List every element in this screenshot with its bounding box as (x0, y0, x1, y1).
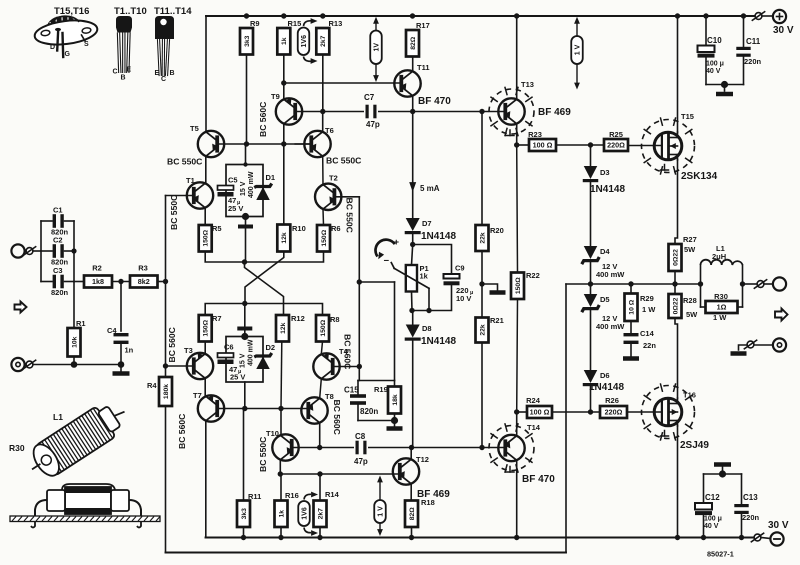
svg-text:C: C (113, 69, 118, 76)
svg-text:E: E (155, 70, 160, 77)
svg-text:180k: 180k (163, 384, 170, 399)
svg-text:C14: C14 (640, 329, 655, 338)
svg-text:25 V: 25 V (228, 204, 243, 213)
svg-text:T7: T7 (193, 391, 202, 400)
svg-text:D8: D8 (422, 324, 432, 333)
svg-text:BC 560C: BC 560C (177, 414, 187, 449)
svg-text:R9: R9 (250, 19, 260, 28)
svg-text:R25: R25 (609, 130, 623, 139)
svg-text:D4: D4 (600, 247, 610, 256)
svg-text:C12: C12 (705, 493, 720, 502)
svg-text:R19: R19 (374, 385, 388, 394)
svg-text:R12: R12 (291, 314, 305, 323)
svg-text:C10: C10 (707, 36, 722, 45)
svg-text:1Ω: 1Ω (717, 303, 727, 312)
svg-text:R24: R24 (526, 396, 541, 405)
svg-text:C5: C5 (228, 176, 238, 185)
svg-text:R6: R6 (331, 224, 341, 233)
svg-text:150Ω: 150Ω (321, 229, 328, 246)
svg-text:T15,T16: T15,T16 (54, 6, 89, 17)
svg-text:BF 470: BF 470 (418, 96, 451, 107)
svg-text:12k: 12k (280, 322, 287, 334)
svg-text:R13: R13 (329, 19, 343, 28)
svg-text:R5: R5 (212, 224, 222, 233)
svg-text:10 V: 10 V (456, 294, 471, 303)
svg-text:BC 560C: BC 560C (167, 327, 177, 362)
svg-text:85027-1: 85027-1 (707, 550, 734, 559)
svg-text:R17: R17 (416, 21, 430, 30)
svg-text:BC 550C: BC 550C (326, 156, 361, 166)
svg-text:1k8: 1k8 (92, 277, 104, 286)
svg-text:R3: R3 (138, 264, 148, 273)
svg-text:T13: T13 (521, 80, 534, 89)
svg-text:E: E (127, 67, 132, 74)
svg-text:G: G (65, 51, 71, 58)
svg-text:B: B (170, 70, 175, 77)
svg-text:1V6: 1V6 (301, 35, 308, 48)
svg-text:T11: T11 (417, 63, 430, 72)
svg-text:D3: D3 (600, 168, 610, 177)
svg-text:R29: R29 (640, 294, 654, 303)
svg-text:R30: R30 (9, 443, 25, 453)
svg-text:0Ω22: 0Ω22 (672, 249, 679, 266)
svg-text:R4: R4 (147, 381, 157, 390)
svg-text:BC 550C: BC 550C (258, 437, 268, 472)
svg-text:3k3: 3k3 (241, 508, 248, 520)
svg-text:T1: T1 (186, 176, 195, 185)
svg-text:30 V: 30 V (768, 520, 789, 531)
svg-text:1k: 1k (420, 272, 429, 281)
svg-text:1k: 1k (281, 37, 288, 45)
svg-text:150Ω: 150Ω (203, 229, 210, 246)
svg-text:82Ω: 82Ω (410, 36, 417, 50)
svg-text:C1: C1 (53, 206, 63, 215)
svg-text:T5: T5 (190, 124, 199, 133)
svg-text:BF 470: BF 470 (522, 474, 555, 485)
svg-text:1n: 1n (125, 346, 134, 355)
svg-text:R30: R30 (714, 292, 728, 301)
svg-text:L1: L1 (53, 412, 63, 422)
svg-text:BC 550C: BC 550C (169, 195, 179, 230)
svg-text:BC 550C: BC 550C (167, 157, 202, 167)
svg-text:820n: 820n (360, 407, 378, 416)
svg-text:D2: D2 (266, 343, 276, 352)
svg-text:C4: C4 (107, 326, 117, 335)
svg-text:BF 469: BF 469 (538, 107, 571, 118)
svg-text:1V: 1V (374, 43, 381, 52)
svg-text:100 Ω: 100 Ω (533, 141, 553, 150)
svg-text:C6: C6 (224, 343, 234, 352)
svg-text:220n: 220n (742, 513, 760, 522)
svg-text:R11: R11 (248, 492, 261, 501)
svg-text:150Ω: 150Ω (320, 319, 327, 336)
svg-text:T3: T3 (184, 346, 193, 355)
svg-text:10k: 10k (71, 336, 78, 348)
svg-text:C: C (161, 76, 166, 83)
svg-text:R15: R15 (288, 19, 302, 28)
svg-text:R28: R28 (683, 296, 697, 305)
svg-text:C13: C13 (743, 493, 758, 502)
svg-text:820n: 820n (51, 288, 69, 297)
svg-text:1 V: 1 V (575, 44, 582, 55)
svg-text:5W: 5W (686, 310, 698, 319)
svg-text:22k: 22k (479, 232, 486, 244)
svg-text:T9: T9 (271, 92, 280, 101)
svg-text:T12: T12 (416, 455, 429, 464)
svg-text:15 V: 15 V (240, 181, 247, 196)
svg-text:0Ω22: 0Ω22 (672, 297, 679, 314)
svg-text:3k3: 3k3 (244, 35, 251, 47)
svg-text:1N4148: 1N4148 (421, 231, 456, 242)
svg-text:40 V: 40 V (706, 68, 721, 75)
svg-text:220Ω: 220Ω (605, 408, 623, 417)
svg-text:T2: T2 (329, 174, 338, 183)
svg-text:C11: C11 (746, 37, 761, 46)
svg-text:400 mW: 400 mW (596, 322, 625, 331)
svg-text:15 V: 15 V (240, 353, 247, 368)
svg-text:1N4148: 1N4148 (590, 184, 625, 195)
svg-text:T15: T15 (681, 112, 694, 121)
svg-text:D: D (50, 44, 55, 51)
svg-text:1N4148: 1N4148 (589, 382, 624, 393)
svg-text:R20: R20 (490, 226, 504, 235)
svg-text:2k7: 2k7 (320, 35, 327, 47)
svg-text:C8: C8 (355, 432, 366, 441)
svg-text:R22: R22 (526, 271, 540, 280)
svg-text:BC 550C: BC 550C (345, 198, 355, 233)
svg-text:D7: D7 (422, 219, 432, 228)
svg-text:25 V: 25 V (230, 373, 245, 382)
svg-text:R26: R26 (605, 396, 619, 405)
svg-text:R1: R1 (76, 319, 86, 328)
svg-text:1 V: 1 V (378, 506, 385, 517)
svg-text:−: − (384, 256, 390, 267)
svg-text:B: B (121, 75, 126, 82)
svg-text:C3: C3 (53, 266, 63, 275)
svg-text:12k: 12k (281, 232, 288, 244)
svg-text:100 μ: 100 μ (704, 516, 722, 523)
svg-text:R10: R10 (292, 224, 306, 233)
svg-text:T14: T14 (527, 423, 541, 432)
svg-text:10 Ω: 10 Ω (628, 299, 635, 314)
svg-text:30 V: 30 V (773, 25, 794, 36)
svg-text:8k2: 8k2 (138, 277, 150, 286)
svg-text:BC 560C: BC 560C (332, 400, 342, 435)
svg-text:R8: R8 (330, 315, 340, 324)
svg-text:D5: D5 (600, 295, 610, 304)
svg-text:2k7: 2k7 (317, 508, 324, 520)
svg-text:D1: D1 (266, 173, 276, 182)
svg-text:S: S (84, 41, 89, 48)
svg-text:150Ω: 150Ω (515, 277, 522, 294)
svg-text:100 Ω: 100 Ω (530, 408, 550, 417)
svg-text:BC 560C: BC 560C (343, 334, 353, 369)
svg-text:R23: R23 (528, 130, 542, 139)
svg-text:220Ω: 220Ω (607, 141, 625, 150)
svg-text:5W: 5W (684, 245, 696, 254)
svg-text:5 mA: 5 mA (420, 184, 440, 193)
svg-text:D6: D6 (600, 371, 610, 380)
svg-text:47p: 47p (366, 120, 380, 129)
svg-text:BC 560C: BC 560C (258, 102, 268, 137)
svg-text:400 mW: 400 mW (248, 171, 255, 198)
svg-text:R2: R2 (92, 264, 102, 273)
svg-text:T11..T14: T11..T14 (154, 6, 192, 17)
svg-text:R14: R14 (325, 490, 340, 499)
svg-text:1 W: 1 W (642, 305, 656, 314)
svg-text:400 mW: 400 mW (596, 270, 625, 279)
svg-text:40 V: 40 V (704, 523, 719, 530)
svg-text:T1..T10: T1..T10 (114, 6, 147, 17)
svg-text:+: + (394, 237, 400, 248)
svg-text:2μH: 2μH (712, 252, 726, 261)
svg-text:C7: C7 (364, 93, 375, 102)
svg-text:22k: 22k (479, 324, 486, 336)
svg-text:1 W: 1 W (713, 313, 727, 322)
svg-text:400 mW: 400 mW (248, 339, 255, 366)
svg-text:1V6: 1V6 (302, 507, 309, 520)
svg-text:82Ω: 82Ω (409, 507, 416, 521)
svg-text:2SJ49: 2SJ49 (680, 440, 709, 451)
svg-text:2SK134: 2SK134 (681, 171, 718, 182)
svg-text:22n: 22n (643, 341, 656, 350)
svg-text:R7: R7 (212, 314, 222, 323)
svg-text:T6: T6 (325, 126, 334, 135)
svg-text:R16: R16 (285, 491, 299, 500)
svg-text:C9: C9 (455, 264, 465, 273)
svg-text:R27: R27 (683, 235, 697, 244)
svg-text:1k: 1k (278, 510, 285, 518)
svg-text:18k: 18k (392, 394, 399, 406)
svg-text:150Ω: 150Ω (203, 319, 210, 336)
svg-text:47p: 47p (354, 457, 368, 466)
svg-text:T16: T16 (683, 391, 696, 400)
svg-text:220n: 220n (744, 57, 762, 66)
svg-text:C15: C15 (344, 386, 359, 395)
svg-text:R21: R21 (490, 316, 504, 325)
svg-text:BF 469: BF 469 (417, 489, 450, 500)
svg-text:100 μ: 100 μ (706, 61, 724, 68)
svg-text:1N4148: 1N4148 (421, 336, 456, 347)
svg-text:C2: C2 (53, 236, 63, 245)
